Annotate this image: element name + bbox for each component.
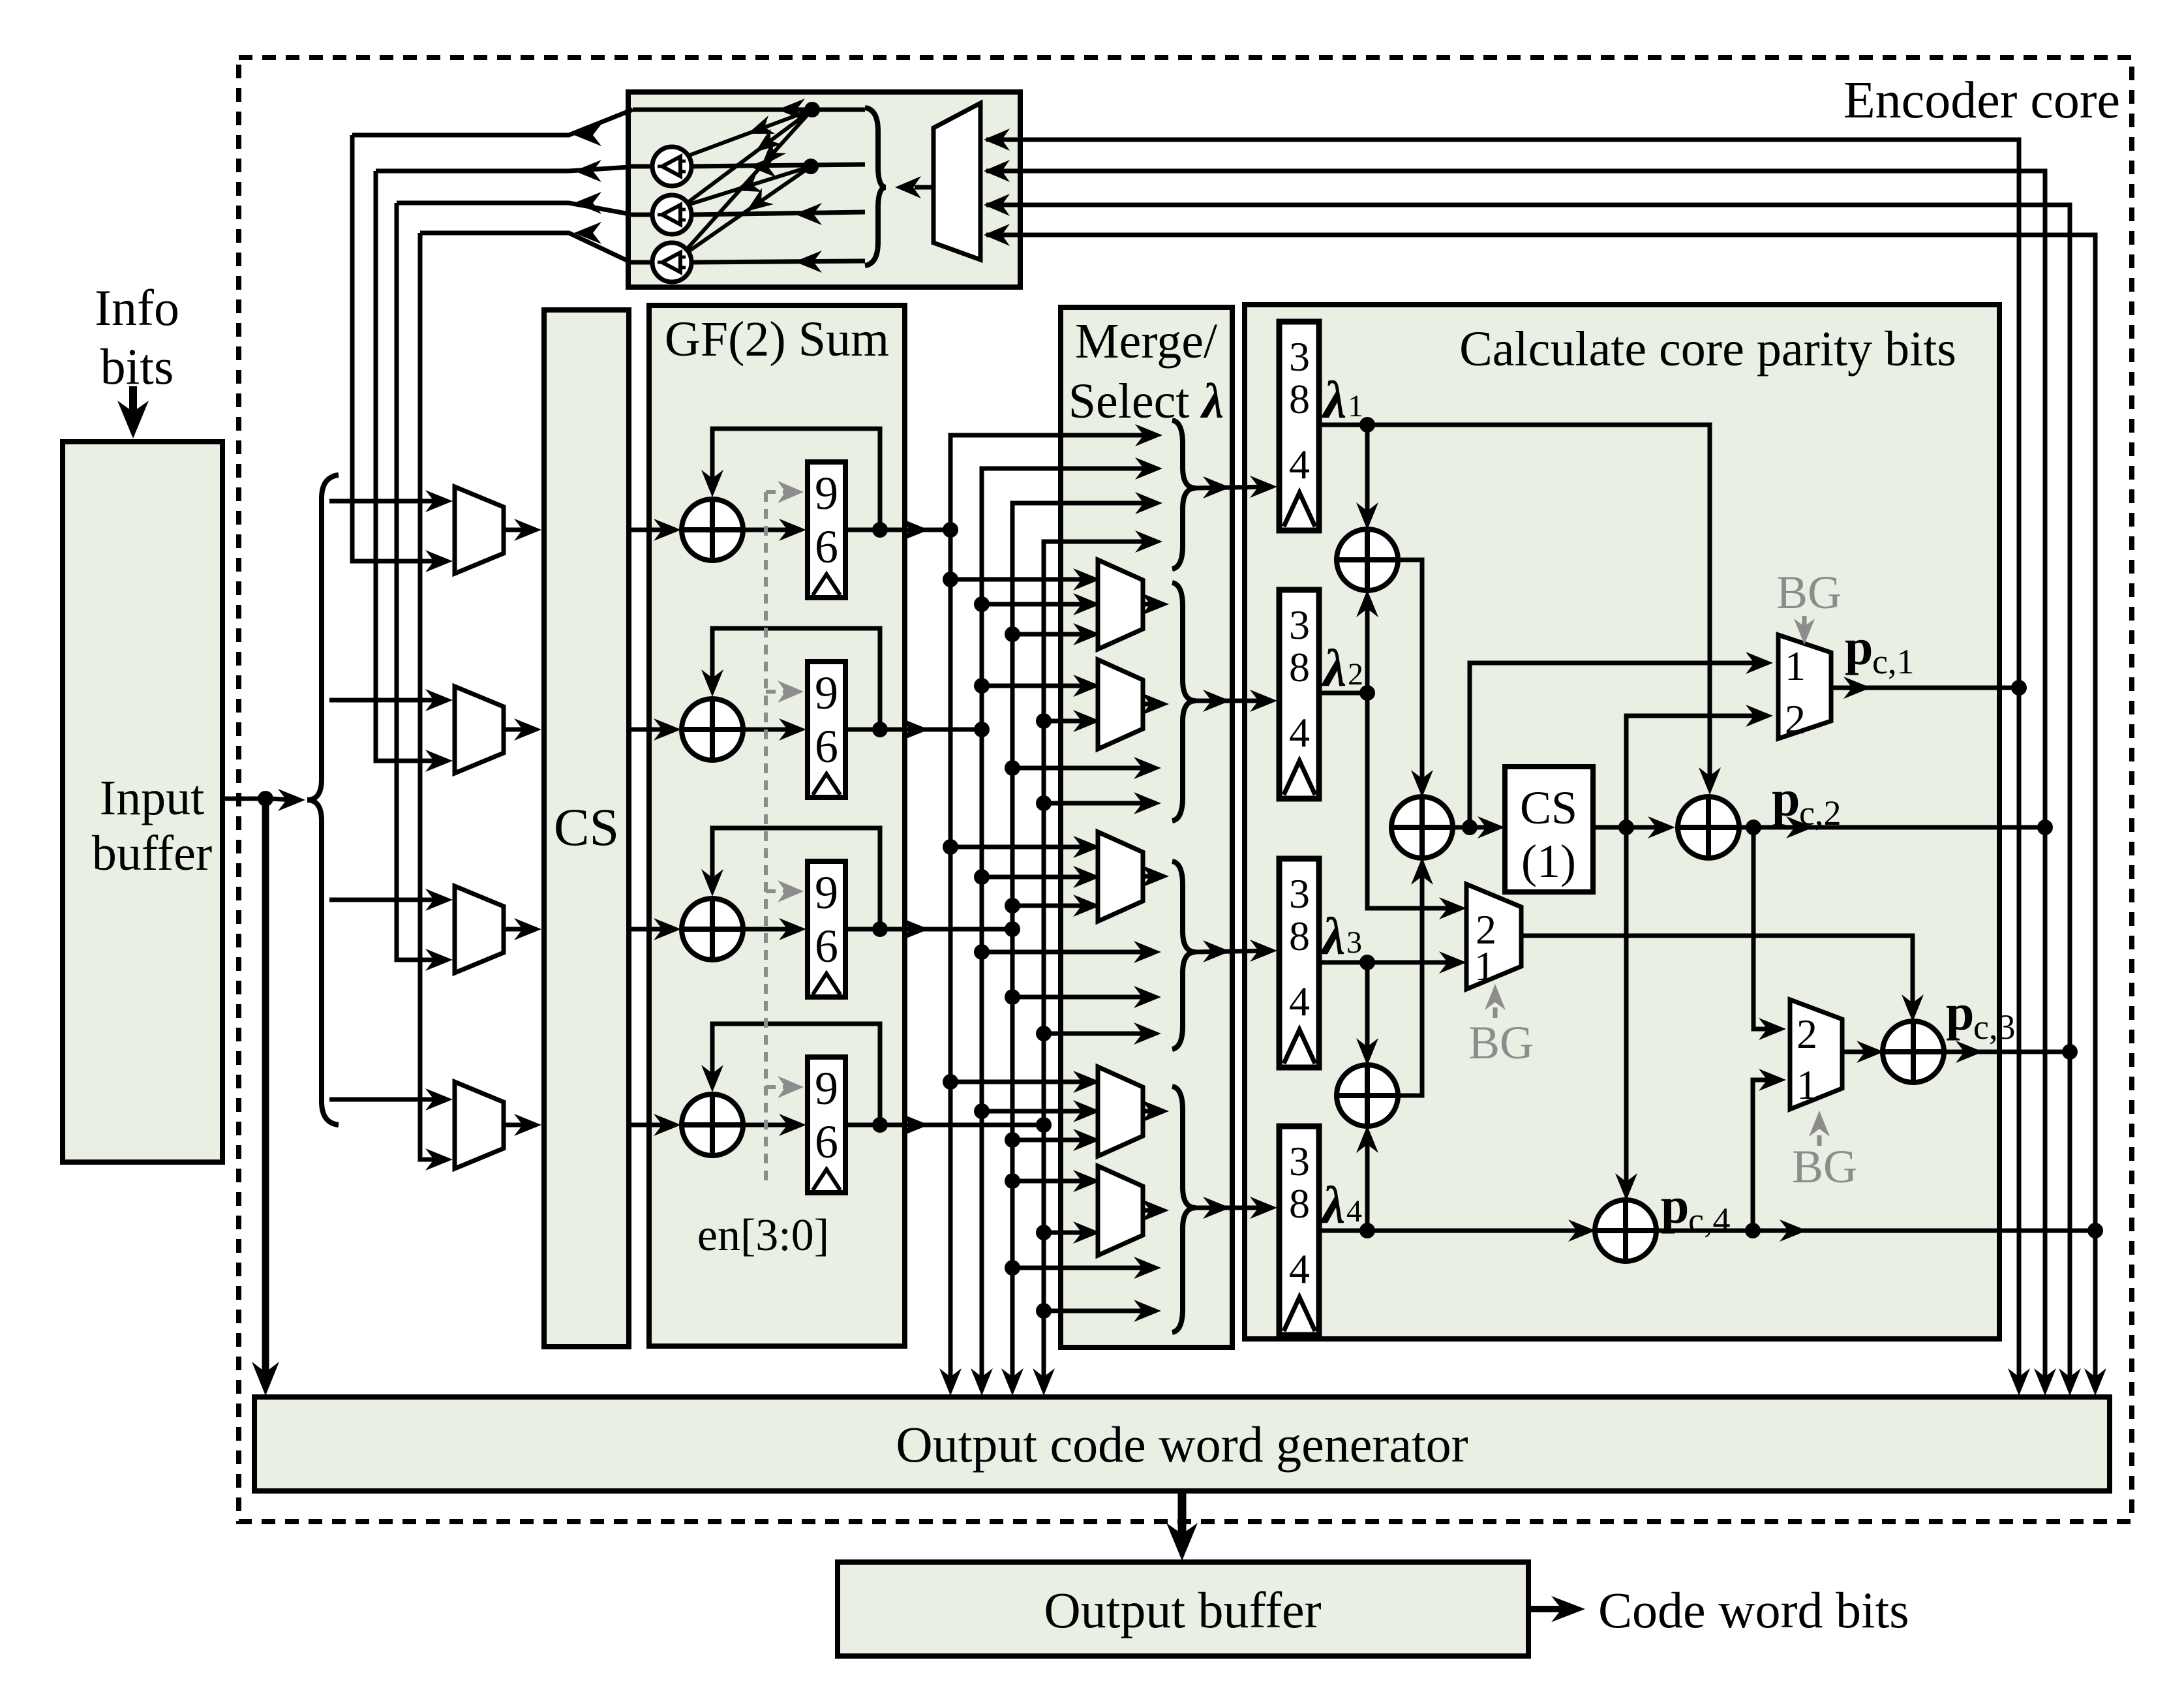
- node register 1 output tap: [872, 522, 888, 538]
- wire feedback drop 2 to mux M2 input B: [376, 171, 447, 761]
- merge brace group 2: [1172, 583, 1196, 821]
- wire enable line en[3:0]: [764, 492, 768, 1182]
- wire fb row2 right: [691, 164, 865, 166]
- Calculate core parity bits block: [1245, 305, 1999, 1339]
- svg-text:buffer: buffer: [92, 826, 212, 881]
- xor gate X2: [1391, 797, 1453, 858]
- svg-text:2: 2: [1785, 696, 1806, 743]
- node V2 gf join: [974, 722, 990, 737]
- wire tap to merge group4 line 2: [1044, 1309, 1155, 1313]
- svg-text:c,3: c,3: [1973, 1007, 2015, 1047]
- arrow fb row2 left-dir: [749, 155, 776, 177]
- wire CS output row 4: [629, 1123, 676, 1128]
- wire lambda2 output: [1319, 691, 1367, 696]
- mux M1: [455, 487, 504, 574]
- node pc2 join: [2037, 820, 2053, 835]
- wire input to fan brace: [270, 799, 295, 800]
- svg-text:6: 6: [815, 521, 838, 573]
- wire tap to mux MB input 1: [982, 684, 1094, 688]
- svg-text:CS: CS: [1520, 782, 1577, 834]
- mux MA: [1098, 560, 1143, 649]
- wire input drop to output generator: [262, 799, 269, 1381]
- wire fb row4 left: [629, 260, 653, 265]
- wire enable tap 4: [766, 1085, 795, 1089]
- wire tap to merge group3 line 3: [1044, 1032, 1155, 1036]
- wire feedback bus 4: [986, 235, 2095, 1381]
- merge brace group 4: [1172, 1086, 1196, 1332]
- mux M4: [455, 1082, 504, 1169]
- wire lambda1 down to xor X1: [1365, 425, 1370, 523]
- svg-text:λ: λ: [1321, 638, 1346, 698]
- node V3 gf join: [1005, 921, 1020, 937]
- svg-text:Calculate core parity bits: Calculate core parity bits: [1459, 322, 1956, 376]
- svg-text:Output buffer: Output buffer: [1044, 1582, 1321, 1638]
- wire tap to merge group3 line 1: [982, 950, 1155, 955]
- node lambda4 tap: [1359, 1223, 1375, 1238]
- svg-text:Encoder core: Encoder core: [1843, 72, 2120, 129]
- wire mux ME output: [1143, 1208, 1164, 1213]
- svg-text:4: 4: [1289, 709, 1310, 756]
- wire feedback horizontal 4: [420, 233, 629, 262]
- merge brace group 3: [1172, 861, 1196, 1049]
- wire tap to mux MD input 3: [1012, 1138, 1094, 1143]
- wire feedback bus 1: [986, 140, 2019, 1381]
- node register 3 output tap: [872, 921, 888, 937]
- clock wedge REG96-2: [813, 774, 840, 795]
- wire generator to output buffer: [1178, 1491, 1187, 1542]
- node X2 output tap: [1462, 820, 1478, 835]
- wire lambda4 up to xor X34: [1365, 1132, 1370, 1231]
- wire fb diagonal d1-G3: [685, 110, 812, 251]
- wire lambda3 down to xor X34: [1365, 962, 1370, 1059]
- svg-text:Output code word generator: Output code word generator: [896, 1416, 1468, 1473]
- node pc4 join: [2087, 1223, 2103, 1238]
- wire register 2 output: [845, 728, 982, 732]
- svg-text:1: 1: [1348, 389, 1363, 423]
- mux MF: [1466, 884, 1521, 989]
- input buffer: [63, 442, 222, 1162]
- wire pc1 output: [1831, 686, 2015, 690]
- wire feedback drop 1 to mux M1 input B: [352, 135, 447, 561]
- svg-text:9: 9: [815, 667, 838, 719]
- svg-text:3: 3: [1289, 602, 1310, 648]
- svg-text:6: 6: [815, 920, 838, 972]
- wire output buffer to code word bits: [1528, 1606, 1568, 1612]
- svg-text:2: 2: [1348, 657, 1363, 692]
- clock-gate G3: [652, 243, 691, 282]
- mux ME: [1098, 1166, 1143, 1255]
- node lambda2 tap: [1359, 685, 1375, 701]
- svg-text:8: 8: [1289, 376, 1310, 422]
- wire tap to mux MA input 1: [950, 577, 1094, 582]
- wire tap to mux MB input 2: [1044, 719, 1094, 724]
- svg-text:9: 9: [815, 867, 838, 919]
- feedback select block: [628, 92, 1020, 287]
- arrow fb row1 left: [778, 99, 805, 121]
- wire feedback drop 4 to mux M4 input B: [420, 233, 447, 1159]
- wire X2 tap to mux MP1 input 1: [1470, 663, 1768, 827]
- svg-text:p: p: [1845, 619, 1873, 675]
- wire BG dashed arrow MP1: [1802, 616, 1807, 630]
- register REG96-3: [808, 861, 845, 997]
- svg-text:1: 1: [1797, 1062, 1817, 1108]
- wire mux MA output: [1143, 602, 1164, 607]
- wire BG dashed arrow MP3: [1817, 1126, 1822, 1146]
- wire feedback bus 2: [986, 171, 2045, 1381]
- gather brace in feedback box: [865, 108, 886, 266]
- clock-gate G2: [652, 195, 691, 234]
- wire CS1 output: [1593, 825, 1670, 830]
- wire bus V4: [1044, 542, 1155, 1381]
- wire register 4 output: [845, 1123, 1044, 1128]
- output code word generator block: [254, 1397, 2110, 1491]
- wire fan row 1 to mux M1 input A: [329, 499, 447, 504]
- wire tap to mux MC input 3: [1012, 904, 1094, 908]
- wire bus V3: [1012, 503, 1155, 1381]
- wire fb row3 right: [691, 212, 865, 215]
- node V4 gf join: [1036, 1117, 1052, 1133]
- wire fan row 3 to mux M3 input A: [329, 898, 447, 902]
- wire register 1 output: [845, 528, 950, 532]
- wire feedback bus 3: [986, 205, 2070, 1381]
- xor gate XP3: [1883, 1021, 1944, 1082]
- clock wedge REG96-4: [813, 1169, 840, 1190]
- svg-text:Code word bits: Code word bits: [1598, 1582, 1909, 1638]
- wire tap to mux MC input 2: [982, 875, 1094, 880]
- wire merge output 3: [1196, 951, 1271, 952]
- wire tap to mux ME input 1: [1012, 1179, 1094, 1184]
- wire pc3 output: [1943, 1050, 2066, 1054]
- wire tap to merge group2 line 2: [1044, 801, 1155, 806]
- mux MP1: [1778, 635, 1831, 739]
- wire mux MC output: [1143, 874, 1164, 879]
- wire tap to mux MC input 1: [950, 845, 1094, 850]
- svg-text:BG: BG: [1468, 1017, 1534, 1069]
- wire pc2 tap to mux MP3 input 2: [1753, 827, 1781, 1029]
- svg-text:en[3:0]: en[3:0]: [697, 1210, 829, 1261]
- xor gate XP4: [1595, 1200, 1656, 1261]
- Merge/Select block: [1061, 307, 1232, 1347]
- svg-text:p: p: [1661, 1177, 1689, 1234]
- wire CS output row 3: [629, 927, 676, 932]
- wire fan row 4 to mux M4 input A: [329, 1097, 447, 1102]
- mux M3: [455, 886, 504, 973]
- svg-text:8: 8: [1289, 644, 1310, 690]
- node CS1 output tap: [1618, 820, 1634, 835]
- mux MD: [1098, 1067, 1143, 1156]
- node lambda3 tap: [1359, 955, 1375, 970]
- wire lambda2 down to mux MF: [1367, 693, 1461, 908]
- wire mux M3 output to CS: [504, 927, 536, 932]
- wire CS output row 1: [629, 528, 676, 532]
- wire mux M4 output to CS: [504, 1123, 536, 1128]
- svg-text:6: 6: [815, 720, 838, 773]
- svg-text:4: 4: [1289, 1246, 1310, 1292]
- svg-text:λ: λ: [1321, 370, 1346, 429]
- wire tap to merge group2 line 1: [1012, 766, 1155, 771]
- wire merge output 1: [1196, 487, 1271, 488]
- xor gate A4: [682, 1094, 743, 1156]
- svg-text:4: 4: [1289, 978, 1310, 1024]
- wire mux MF output to xor XP3: [1521, 936, 1913, 1015]
- wire CS1 tap down to xor XP4: [1624, 827, 1629, 1194]
- register LAMBDA3 (384): [1279, 859, 1319, 1067]
- node pc3 join: [2062, 1044, 2078, 1060]
- wire fb diagonal d2-G3: [687, 166, 811, 253]
- wire info-bits arrow: [129, 386, 137, 420]
- svg-text:6: 6: [815, 1116, 838, 1168]
- wire tap to merge group3 line 2: [1012, 995, 1155, 1000]
- clock wedge REG96-1: [813, 574, 840, 595]
- register LAMBDA1 (384): [1279, 322, 1319, 530]
- wire pc2 output: [1738, 825, 2041, 830]
- svg-text:Info: Info: [95, 279, 179, 336]
- wire BG dashed arrow MF: [1493, 1000, 1498, 1018]
- wire xor A4 to register: [742, 1123, 801, 1128]
- mux MC: [1098, 832, 1143, 921]
- wire merge output 2: [1196, 699, 1271, 703]
- svg-text:GF(2) Sum: GF(2) Sum: [665, 312, 889, 367]
- mux MB: [1098, 660, 1143, 749]
- svg-text:3: 3: [1289, 870, 1310, 917]
- wire feedback horizontal 1: [352, 110, 633, 135]
- svg-text:8: 8: [1289, 913, 1310, 959]
- svg-text:CS: CS: [554, 797, 619, 857]
- wire feedback loop 3: [712, 828, 880, 929]
- wire merge output 4: [1196, 1206, 1271, 1210]
- register REG96-4: [808, 1057, 845, 1193]
- svg-text:BG: BG: [1776, 566, 1842, 619]
- svg-text:4: 4: [1346, 1194, 1362, 1229]
- clock wedge REG96-3: [813, 974, 840, 994]
- svg-text:c,4: c,4: [1688, 1201, 1730, 1240]
- svg-text:3: 3: [1289, 333, 1310, 380]
- svg-text:1: 1: [1785, 643, 1806, 689]
- wire tap to mux MA input 3: [1012, 632, 1094, 637]
- register LAMBDA4 (384): [1279, 1126, 1319, 1335]
- wire mux MP3 output: [1842, 1050, 1879, 1054]
- node pc4 tap: [1745, 1223, 1761, 1238]
- xor gate A1: [682, 499, 743, 560]
- svg-text:8: 8: [1289, 1180, 1310, 1227]
- svg-text:p: p: [1772, 770, 1800, 827]
- wire lambda1 output row: [1319, 425, 1710, 788]
- wire feedback loop 4: [712, 1024, 880, 1125]
- wire feedback drop 3 to mux M3 input B: [397, 203, 447, 960]
- node register 2 output tap: [872, 722, 888, 737]
- wire fb diagonal d1-G1: [688, 110, 812, 156]
- wire enable tap 3: [766, 889, 795, 893]
- wire fb row4 right: [691, 261, 865, 262]
- xor gate X1 lambda1+lambda2: [1337, 529, 1398, 591]
- clock-gate G1: [652, 147, 691, 186]
- wire feedback horizontal 3: [397, 203, 629, 214]
- node input fanout junction: [258, 791, 273, 806]
- wire fb row2 left: [629, 164, 653, 169]
- wire lambda3 output row: [1319, 960, 1461, 965]
- wire lambda4 output row: [1319, 1229, 1590, 1233]
- wire bus V2: [982, 468, 1155, 1381]
- wire tap to mux ME input 2: [1044, 1231, 1094, 1235]
- wire fan row 2 to mux M2 input A: [329, 698, 447, 703]
- wire feedback horizontal 2: [376, 167, 629, 171]
- svg-text:c,1: c,1: [1872, 642, 1914, 681]
- wire feedback loop 1: [712, 429, 880, 530]
- mux M0 feedback select: [933, 103, 980, 260]
- svg-text:1: 1: [1474, 943, 1495, 989]
- wire feedback loop 2: [712, 628, 880, 729]
- xor gate A3: [682, 898, 743, 960]
- wire mux M2 output to CS: [504, 728, 536, 732]
- wire CS output row 2: [629, 728, 676, 732]
- svg-text:4: 4: [1289, 441, 1310, 487]
- svg-text:BG: BG: [1792, 1141, 1857, 1193]
- wire register 3 output: [845, 927, 1012, 932]
- fan-out brace for input bus: [307, 475, 339, 1125]
- wire pc4 tap to mux MP3 input 1: [1753, 1080, 1781, 1231]
- svg-text:Merge/: Merge/: [1075, 314, 1218, 369]
- svg-text:2: 2: [1797, 1011, 1817, 1057]
- xor gate XP2: [1678, 797, 1739, 858]
- node lambda1 tap: [1359, 417, 1375, 433]
- svg-text:p: p: [1946, 984, 1974, 1041]
- wire fb row3 left: [629, 213, 653, 217]
- register REG96-2: [808, 662, 845, 797]
- node fb junction 2: [803, 159, 819, 174]
- wire CS1 tap to mux MP1 input 2: [1626, 716, 1768, 827]
- GF(2) Sum block: [649, 305, 905, 1346]
- mux MP3: [1790, 1000, 1842, 1109]
- mux M2: [455, 686, 504, 773]
- wire input buffer output: [222, 797, 261, 801]
- svg-text:3: 3: [1346, 925, 1362, 960]
- wire xor X2 to CS1: [1452, 825, 1500, 830]
- svg-text:c,2: c,2: [1799, 793, 1841, 833]
- svg-text:3: 3: [1289, 1138, 1310, 1184]
- wire tap to mux MD input 1: [950, 1080, 1094, 1084]
- svg-text:Input: Input: [100, 771, 204, 825]
- register CS (1): [1505, 767, 1593, 892]
- wire enable tap 2: [766, 690, 795, 694]
- wire pc4 output: [1656, 1229, 2091, 1233]
- node register 4 output tap: [872, 1117, 888, 1133]
- wire tap to mux MD input 2: [982, 1109, 1094, 1114]
- wire fb diagonal d2-G2: [688, 166, 811, 205]
- wire mux M1 output to CS: [504, 528, 536, 532]
- wire fb row1: [633, 108, 865, 112]
- svg-text:λ: λ: [1320, 906, 1345, 966]
- wire mux MD output: [1143, 1109, 1164, 1114]
- wire xor A1 to register: [742, 528, 801, 532]
- merge brace group 1: [1172, 420, 1196, 569]
- wire xor A3 to register: [742, 927, 801, 932]
- svg-text:λ: λ: [1320, 1175, 1345, 1235]
- wire bus V1: [950, 435, 1155, 1381]
- wire xor X34 to xor X2: [1397, 864, 1422, 1096]
- wire fb diagonal d1-G2: [686, 110, 812, 204]
- node pc2 tap: [1746, 820, 1761, 835]
- svg-text:bits: bits: [100, 338, 174, 395]
- output buffer block: [838, 1562, 1528, 1656]
- wire lambda2 up to xor X1: [1365, 596, 1370, 693]
- svg-text:Select λ: Select λ: [1069, 374, 1224, 429]
- wire tap to mux MA input 2: [982, 602, 1094, 607]
- xor gate X34 lambda3+lambda4: [1337, 1065, 1398, 1126]
- svg-text:9: 9: [815, 1062, 838, 1114]
- register LAMBDA2 (384): [1279, 590, 1319, 799]
- node fb junction 1: [804, 102, 820, 117]
- outer dashed boundary: Encoder core: [239, 57, 2132, 1522]
- svg-text:(1): (1): [1521, 835, 1576, 887]
- wire mux M0 output: [915, 185, 933, 190]
- wire xor X1 to xor X2: [1397, 560, 1422, 791]
- wire enable tap 1: [766, 490, 795, 494]
- svg-text:9: 9: [815, 467, 838, 519]
- wire tap to merge group4 line 1: [1012, 1266, 1155, 1270]
- CS column block: [544, 310, 629, 1347]
- register REG96-1: [808, 462, 845, 598]
- node V1 gf join: [943, 522, 958, 538]
- node pc1 join: [2011, 680, 2027, 696]
- wire xor A2 to register: [742, 728, 801, 732]
- wire mux MB output: [1143, 702, 1164, 707]
- xor gate A2: [682, 699, 743, 760]
